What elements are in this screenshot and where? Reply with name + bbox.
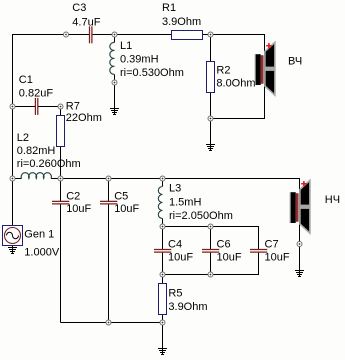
- svg-text:C1: C1: [19, 74, 33, 86]
- capacitor C4: [154, 239, 193, 264]
- svg-text:10uF: 10uF: [217, 251, 242, 263]
- svg-text:0.82mH: 0.82mH: [17, 145, 56, 157]
- capacitor C5: [100, 191, 140, 216]
- resistor R7: [57, 101, 102, 147]
- svg-text:C4: C4: [168, 239, 182, 251]
- svg-text:10uF: 10uF: [168, 251, 193, 263]
- node at C4 bottom junction: [160, 272, 165, 277]
- svg-text:1.000V: 1.000V: [24, 247, 60, 259]
- speaker BCH (HF): [255, 42, 303, 95]
- svg-text:R7: R7: [66, 101, 80, 113]
- wire C6 column x=210: [210, 227, 212, 275]
- node at C5 bottom junction: [106, 320, 111, 325]
- svg-text:0.39mH: 0.39mH: [120, 54, 159, 66]
- speaker NCH (LF): [290, 180, 340, 233]
- node at speaker NCH bottom: [297, 242, 302, 247]
- ground below R5: [158, 349, 167, 355]
- node at C3/L1 junction: [112, 32, 117, 37]
- svg-text:R1: R1: [162, 2, 176, 14]
- svg-text:ri=0.530Ohm: ri=0.530Ohm: [120, 67, 184, 79]
- svg-text:3.9Ohm: 3.9Ohm: [168, 301, 207, 313]
- wire C4-bottom row y=274: [163, 274, 260, 276]
- svg-text:Gen 1: Gen 1: [24, 229, 54, 241]
- ground below R2 node: [206, 145, 215, 151]
- svg-text:ВЧ: ВЧ: [288, 55, 302, 67]
- wire C7 column x=258: [258, 227, 260, 275]
- node at L2/R7/C2 junction: [58, 176, 63, 181]
- svg-text:22Ohm: 22Ohm: [66, 112, 102, 124]
- capacitor C3: [72, 2, 100, 43]
- resistor R2: [207, 62, 256, 93]
- ground below L1: [110, 109, 119, 115]
- node at L1 bottom: [112, 80, 117, 85]
- node at C5 top junction: [106, 176, 111, 181]
- svg-text:R2: R2: [216, 65, 230, 77]
- inductor L3: [158, 183, 233, 223]
- wire bottom rail y=322: [61, 322, 164, 324]
- wire R7 column x=60: [60, 107, 62, 179]
- svg-text:1.5mH: 1.5mH: [169, 196, 201, 208]
- wire C2 column x=60: [60, 179, 62, 323]
- wire C5 column x=108: [108, 179, 110, 323]
- ground below Gen 1: [8, 246, 17, 255]
- node at C1 left pin: [10, 104, 15, 109]
- wire L3-bottom row y=226: [163, 226, 260, 228]
- ground below speaker NCH: [295, 271, 304, 277]
- capacitor C7: [250, 239, 290, 264]
- svg-text:C7: C7: [265, 239, 279, 251]
- resistor R1: [162, 2, 203, 40]
- node at C6 bottom junction: [208, 272, 213, 277]
- svg-text:C5: C5: [114, 191, 128, 203]
- svg-text:C6: C6: [217, 239, 231, 251]
- wire R5 column x=162: [162, 275, 164, 356]
- svg-text:L2: L2: [17, 132, 29, 144]
- node at L3 bottom junction: [160, 224, 165, 229]
- wire R2-bottom row y=118: [211, 118, 266, 120]
- svg-text:L1: L1: [120, 40, 132, 52]
- node at L2 left pin: [10, 176, 15, 181]
- wire speaker NCH column x=299: [299, 179, 301, 278]
- wire C4 column x=162: [162, 227, 164, 275]
- wire R2 column x=210: [210, 35, 212, 152]
- resistor R5: [159, 284, 208, 315]
- node at C6 top junction: [208, 224, 213, 229]
- wire C1 row y=106: [13, 106, 61, 108]
- wire mid rail y=178: [13, 178, 301, 180]
- svg-text:R5: R5: [168, 287, 182, 299]
- inductor L2: [17, 132, 81, 179]
- wire top rail horizontal y=34: [13, 34, 266, 36]
- node at R2 bottom junction: [208, 116, 213, 121]
- capacitor C1: [19, 74, 54, 115]
- svg-text:10uF: 10uF: [265, 251, 290, 263]
- wire L3 column x=162: [162, 179, 164, 227]
- svg-text:4.7uF: 4.7uF: [72, 16, 100, 28]
- svg-text:10uF: 10uF: [114, 203, 139, 215]
- wire left rail vertical x=12: [12, 34, 14, 226]
- svg-text:C2: C2: [66, 191, 80, 203]
- wire speaker BCH column x=264: [264, 35, 266, 119]
- wire L1 column x=114: [114, 35, 116, 116]
- svg-text:0.82uF: 0.82uF: [19, 87, 54, 99]
- node at C1/R7 junction: [58, 104, 63, 109]
- svg-text:L3: L3: [169, 183, 181, 195]
- capacitor C6: [202, 239, 242, 264]
- node at L3 top junction: [160, 176, 165, 181]
- inductor L1: [110, 40, 184, 79]
- generator Gen 1: [3, 226, 60, 259]
- svg-text:НЧ: НЧ: [325, 194, 340, 206]
- svg-text:ri=0.260Ohm: ri=0.260Ohm: [17, 158, 81, 170]
- svg-text:3.9Ohm: 3.9Ohm: [162, 16, 201, 28]
- node at R1/R2 junction: [208, 32, 213, 37]
- svg-text:8.0Ohm: 8.0Ohm: [216, 77, 255, 89]
- capacitor C2: [52, 191, 92, 216]
- svg-text:10uF: 10uF: [66, 203, 91, 215]
- svg-text:C3: C3: [72, 2, 86, 14]
- node at R5 bottom junction: [160, 320, 165, 325]
- node at C3 left pin: [64, 32, 69, 37]
- svg-text:ri=2.050Ohm: ri=2.050Ohm: [169, 210, 233, 222]
